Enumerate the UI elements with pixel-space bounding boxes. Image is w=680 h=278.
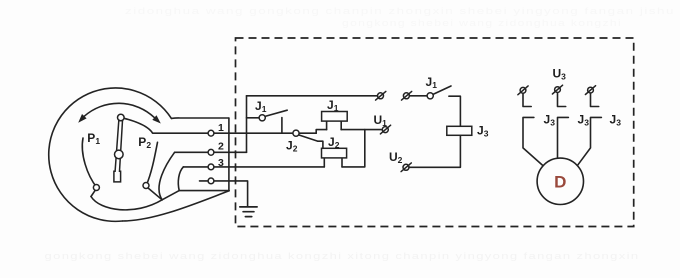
gauge tab right edge	[228, 118, 230, 191]
wire terminal3 horizontal	[183, 166, 208, 168]
wire terminal2 curve into gauge	[159, 152, 175, 200]
terminal U3 phase 1	[520, 87, 526, 93]
motor D body	[537, 158, 583, 204]
terminal U1	[382, 127, 388, 133]
svg-text:U3: U3	[553, 67, 567, 82]
wire pivot to terminal 1	[124, 118, 208, 133]
gauge left setpoint slot arc	[82, 138, 97, 188]
gauge tab top wall	[171, 117, 229, 119]
svg-text:J3: J3	[610, 113, 622, 128]
terminal U3 phase 2	[555, 87, 561, 93]
svg-text:2: 2	[218, 141, 224, 153]
wire terminal B to contact J1	[409, 95, 427, 97]
wire coil J3 to U2	[409, 135, 460, 167]
svg-text:D: D	[554, 172, 566, 191]
wire terminal3 to J2 coil	[214, 166, 324, 168]
svg-text:gongkong shebei wang zidonghua: gongkong shebei wang zidonghua kongzhi	[342, 18, 622, 28]
svg-text:J3: J3	[578, 113, 590, 128]
wire left contact tail	[91, 190, 95, 196]
contact P1 circle	[93, 185, 99, 191]
coil J2 left leg	[323, 158, 325, 167]
svg-text:U1: U1	[374, 113, 388, 128]
coil J1 body	[322, 112, 348, 122]
coil J3 body	[447, 126, 472, 135]
terminal U3 phase 3	[588, 87, 594, 93]
terminal A slash	[376, 91, 386, 100]
wire left rail	[246, 96, 248, 153]
terminal U3 phase 2 slash	[552, 85, 562, 94]
coil J1 left leg	[326, 121, 328, 130]
wire coil J1 to U1 node	[341, 129, 382, 131]
coil J2 body	[322, 148, 347, 158]
gauge bottom scale arc	[91, 197, 162, 210]
contact J3 phase1 upper	[523, 93, 531, 106]
terminal 2	[208, 149, 214, 155]
contact J3 phase2 upper	[558, 93, 566, 107]
gauge right setpoint slot arc	[146, 142, 157, 185]
gauge tab bottom wall and slant to node V	[162, 191, 229, 200]
terminal U2	[403, 164, 409, 170]
svg-text:zidonghua wang gongkong chanpi: zidonghua wang gongkong chanpin zhongxin…	[125, 6, 675, 16]
svg-text:J2: J2	[286, 139, 298, 154]
terminal 3	[208, 164, 214, 170]
svg-text:J1: J1	[327, 98, 339, 113]
svg-text:P1: P1	[87, 131, 100, 146]
wire contact J1 to coil J3	[449, 96, 461, 126]
gauge beak lower edge (flare to terminal tab corner)	[123, 191, 230, 221]
contact J3 phase2 lower and lead to motor	[558, 117, 569, 158]
gauge center hub	[115, 150, 124, 159]
wire to contact J1 left	[247, 117, 260, 119]
wire terminal1 to box	[214, 132, 316, 134]
svg-text:3: 3	[218, 157, 224, 169]
wire terminal2 horizontal	[175, 151, 209, 153]
contact P2 circle	[143, 183, 149, 189]
svg-text:J1: J1	[255, 99, 267, 114]
contact J1 pivot circle (J3 branch)	[427, 93, 433, 99]
terminal B slash	[402, 91, 412, 100]
gauge needle	[114, 121, 123, 182]
svg-text:gongkong shebei wang zidonghu: gongkong shebei wang zidonghua kongzhi x…	[45, 251, 640, 262]
pressure gauge P body (outer circle with cut on right)	[49, 88, 172, 221]
svg-text:J3: J3	[477, 124, 489, 139]
gauge pivot contact circle	[118, 114, 125, 121]
ground symbol	[240, 207, 257, 217]
terminal 1	[208, 130, 214, 136]
svg-text:P2: P2	[138, 135, 151, 150]
controller dashed enclosure	[236, 38, 634, 227]
svg-text:1: 1	[218, 122, 224, 134]
svg-text:J1: J1	[426, 75, 438, 90]
terminal B to J3 branch	[403, 93, 409, 99]
gauge direction arrow arc	[84, 103, 154, 117]
wire stair from terminal1 line to coil J1	[316, 130, 326, 134]
wire terminal4 horizontal	[200, 180, 209, 182]
coil J1 right leg	[340, 121, 342, 130]
gauge arrow head right	[152, 115, 161, 123]
contact J1 fixed post	[281, 118, 283, 134]
terminal 4	[208, 178, 214, 184]
svg-text:U2: U2	[389, 150, 403, 165]
contact J2 pivot circle	[293, 130, 299, 136]
wire terminal2 to left rail	[214, 151, 247, 153]
contact J2 blade	[299, 135, 318, 141]
wire right contact tail to node V	[148, 188, 162, 200]
wire terminal3 curve into gauge	[178, 167, 183, 191]
terminal U1 slash	[380, 125, 390, 134]
terminal A on top rail	[378, 93, 384, 99]
coil J2 right leg	[341, 158, 343, 167]
svg-text:J3: J3	[544, 113, 556, 128]
contact J3 phase3 upper	[591, 93, 599, 107]
terminal U3 phase 1 slash	[518, 86, 528, 95]
svg-text:J2: J2	[328, 135, 340, 150]
wire contact J2 to coil J2	[318, 141, 323, 148]
contact J1 pivot circle	[259, 115, 265, 121]
gauge arrow head left	[78, 114, 86, 123]
contact J1 blade (J3 branch)	[433, 86, 451, 94]
wire coil J2 to U1 node vertical	[342, 130, 365, 167]
contact J1 blade	[265, 110, 287, 116]
contact J3 phase1 lower and lead to motor	[523, 117, 544, 166]
wire top rail	[247, 95, 378, 97]
contact J3 phase3 lower and lead to motor	[577, 117, 602, 166]
terminal U3 phase 3 slash	[585, 86, 595, 95]
terminal U2 slash	[401, 163, 411, 172]
wire terminal4 to ground	[214, 181, 248, 207]
